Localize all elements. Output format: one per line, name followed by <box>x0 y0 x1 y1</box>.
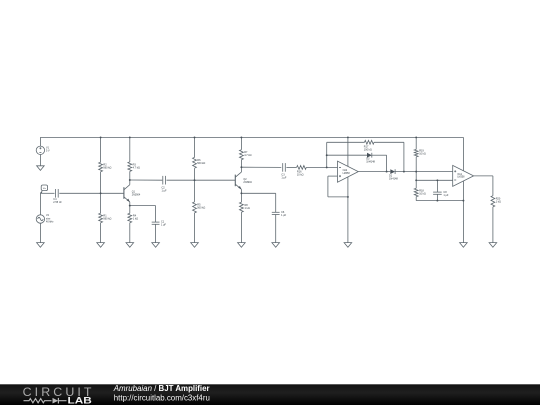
svg-text:Amrubaian / BJT Amplifier: Amrubaian / BJT Amplifier <box>113 384 210 393</box>
wire C4 to Q1 base <box>59 192 124 194</box>
svg-text:1 µF: 1 µF <box>281 214 287 217</box>
CircuitLab logo resistor symbol <box>24 399 52 403</box>
wire V1 to ground <box>39 155 41 166</box>
svg-text:5 V: 5 V <box>46 150 50 153</box>
node Vin flag <box>40 185 47 193</box>
wire D3 to output branch <box>372 154 387 156</box>
wire down to C8 <box>436 180 438 192</box>
svg-text:LM358: LM358 <box>343 173 351 175</box>
svg-text:1 µF: 1 µF <box>281 177 287 180</box>
wire feedback node to D3 <box>327 154 367 156</box>
junction rail R7 <box>240 136 242 138</box>
svg-text:4.7 kΩ: 4.7 kΩ <box>244 154 251 157</box>
wire R2 to R1 <box>100 172 102 214</box>
wire rail to R7 <box>240 137 242 149</box>
wire R1 to ground <box>100 223 102 243</box>
resistor R4 <box>128 213 138 222</box>
svg-text:560 kΩ: 560 kΩ <box>197 162 205 165</box>
resistor R2 <box>99 162 112 172</box>
wire V1 top lead <box>39 137 41 146</box>
svg-text:LM358: LM358 <box>457 177 465 179</box>
wire top supply rail <box>40 136 463 138</box>
svg-text:560 kΩ: 560 kΩ <box>103 218 111 221</box>
wire Vin node to V2 <box>39 193 41 215</box>
wire Q1 collector to C2 <box>130 179 163 181</box>
resistor R5 <box>193 202 206 213</box>
svg-text:1 kΩ: 1 kΩ <box>133 218 138 221</box>
junction Q1 base node <box>100 192 102 194</box>
svg-text:1 kΩ: 1 kΩ <box>245 207 250 210</box>
capacitor C4 <box>53 189 62 204</box>
svg-text:1 µF: 1 µF <box>161 224 167 227</box>
wire R7 to collector node <box>240 160 242 168</box>
junction node B <box>415 179 417 181</box>
junction + loop ground line <box>347 196 349 198</box>
wire base node to R5 <box>194 180 196 202</box>
resistor R1 <box>99 213 112 223</box>
capacitor C8 <box>433 191 449 197</box>
wire output down to R20 <box>492 176 494 196</box>
ground for R20 <box>489 243 497 248</box>
wire R19 to node A <box>415 157 417 172</box>
ground for C6 <box>272 243 280 248</box>
wire C2 to Q2 base <box>167 179 236 181</box>
wire node A to OA1 + input <box>416 171 453 173</box>
ground for OA1 <box>460 243 468 248</box>
wire R3 to collector node <box>129 171 131 180</box>
svg-text:560 kΩ: 560 kΩ <box>197 207 205 210</box>
resistor R16 <box>297 166 307 177</box>
diode D1 <box>389 169 398 180</box>
svg-text:40 kHz: 40 kHz <box>46 220 54 223</box>
wire OA2 noninverting stub <box>328 175 338 177</box>
wire rail to R6 <box>194 137 196 157</box>
junction D3 branch <box>326 154 328 156</box>
wire to R17 <box>327 141 365 143</box>
svg-text:100 kΩ: 100 kΩ <box>364 148 372 151</box>
wire feedback node vertical <box>326 142 328 167</box>
svg-text:10 kΩ: 10 kΩ <box>419 193 426 196</box>
wire rail corner to OA1 V+ pin <box>462 137 464 172</box>
junction bottom line OA1 <box>462 200 464 202</box>
wire OA2 V+ pin to rail <box>347 137 349 168</box>
wire emitter to R4 <box>129 206 131 214</box>
svg-text:LAB: LAB <box>68 396 92 405</box>
junction rail R19 <box>415 136 417 138</box>
junction Q1 collector node <box>129 179 131 181</box>
junction Q1 emitter node <box>129 205 131 207</box>
wire R18 to bottom line <box>415 197 417 201</box>
wire Q2 collector to C3 <box>241 166 281 168</box>
junction rail OA2 V+ <box>347 136 349 138</box>
svg-text:2N3904: 2N3904 <box>132 194 141 197</box>
wire C6 to ground <box>275 215 277 243</box>
junction rail R3 <box>129 136 131 138</box>
capacitor C3 <box>281 163 287 180</box>
wire C3 to R16 <box>286 166 296 168</box>
resistor R18 <box>414 188 426 196</box>
junction rail R6 <box>194 136 196 138</box>
wire R4 to ground <box>129 223 131 243</box>
svg-text:http://circuitlab.com/c3xf4ru: http://circuitlab.com/c3xf4ru <box>114 393 210 402</box>
junction D3 to output <box>386 171 388 173</box>
wire OA2 output to D1 <box>358 171 390 173</box>
svg-text:2.55 nF: 2.55 nF <box>53 201 62 204</box>
junction rail R2 <box>100 136 102 138</box>
wire + loop vertical <box>327 176 329 197</box>
wire rail to R19 <box>415 137 417 149</box>
junction Q2 base node <box>194 179 196 181</box>
wire R16 to OA2 inverting input <box>306 166 337 168</box>
junction C8 top <box>436 179 438 181</box>
wire D1 to node A <box>395 171 416 173</box>
junction feedback node <box>326 166 328 168</box>
resistor R19 <box>414 149 426 157</box>
svg-text:560 kΩ: 560 kΩ <box>103 167 111 170</box>
junction node A <box>415 171 417 173</box>
resistor R7 <box>240 150 252 160</box>
junction C8 bottom <box>436 200 438 202</box>
capacitor C1 <box>152 221 167 227</box>
svg-text:1 µF: 1 µF <box>443 194 449 197</box>
transistor Q2 <box>235 167 252 193</box>
op-amp OA1 <box>453 165 474 186</box>
wire C8 to bottom line <box>436 194 438 200</box>
capacitor C6 <box>272 211 287 217</box>
wire node B to OA1 - input <box>416 179 453 181</box>
svg-text:1N4148: 1N4148 <box>389 177 398 180</box>
wire node B to R18 <box>415 180 417 188</box>
wire OA2 V- pin to ground <box>347 176 349 243</box>
wire Q2 emitter to C6 <box>241 192 275 194</box>
wire emitter to R8 <box>240 193 242 202</box>
wire Q1 emitter to C1 <box>130 205 156 207</box>
wire R6 to base node <box>194 168 196 180</box>
ground for V2 <box>37 243 45 248</box>
junction Q2 emitter node <box>240 192 242 194</box>
svg-text:OA1: OA1 <box>457 173 462 176</box>
svg-text:1 µF: 1 µF <box>162 190 168 193</box>
wire node A to node B <box>415 172 417 181</box>
wire Vin to C4 <box>40 192 54 194</box>
junction R17 to output <box>403 171 405 173</box>
resistor R6 <box>193 157 206 168</box>
CircuitLab logo diode symbol <box>53 398 59 404</box>
svg-text:4.7 kΩ: 4.7 kΩ <box>133 166 140 169</box>
svg-text:10 kΩ: 10 kΩ <box>419 153 426 156</box>
resistor R3 <box>128 162 140 172</box>
wire OA1 output <box>474 175 493 177</box>
ground for OA2 <box>344 243 352 248</box>
wire V2 to ground <box>39 223 41 242</box>
footer bar <box>0 384 540 405</box>
wire R17 down to output <box>403 142 405 171</box>
wire OA1 V- pin to ground <box>462 180 464 243</box>
capacitor C2 <box>162 176 168 193</box>
junction Q2 collector node <box>240 166 242 168</box>
ground for R1 <box>97 243 105 248</box>
wire D3 branch down <box>386 155 388 171</box>
wire bottom line to OA1 V- pin <box>416 200 463 202</box>
resistor R8 <box>240 202 250 212</box>
wire down to C1 <box>155 206 157 223</box>
wire down to C6 <box>275 193 277 212</box>
wire R17 to output corner <box>374 141 404 143</box>
transistor Q1 <box>124 180 141 206</box>
voltage source V2 (sine) <box>36 214 54 223</box>
wire C1 to ground <box>155 224 157 242</box>
ground for V1 <box>37 166 45 171</box>
svg-text:OA2: OA2 <box>343 169 348 172</box>
wire rail to R3 <box>129 137 131 162</box>
resistor R17 <box>364 140 374 151</box>
op-amp OA2 <box>338 161 359 182</box>
ground for R5 <box>191 243 199 248</box>
svg-text:10 kΩ: 10 kΩ <box>297 173 304 176</box>
wire R8 to ground <box>240 212 242 242</box>
resistor R20 <box>491 196 501 207</box>
diode D3 <box>366 153 375 164</box>
wire rail to R2 <box>100 137 102 162</box>
svg-text:1N4148: 1N4148 <box>366 161 375 164</box>
svg-text:2N3904: 2N3904 <box>243 181 252 184</box>
svg-text:1 kΩ: 1 kΩ <box>496 201 501 204</box>
wire R5 to ground <box>194 213 196 243</box>
ground for R8 <box>238 243 246 248</box>
ground for C1 <box>152 243 160 248</box>
wire + loop to ground line <box>328 196 348 198</box>
wire R20 to ground <box>492 207 494 243</box>
voltage source V1 <box>36 146 50 154</box>
ground for R4 <box>126 243 134 248</box>
